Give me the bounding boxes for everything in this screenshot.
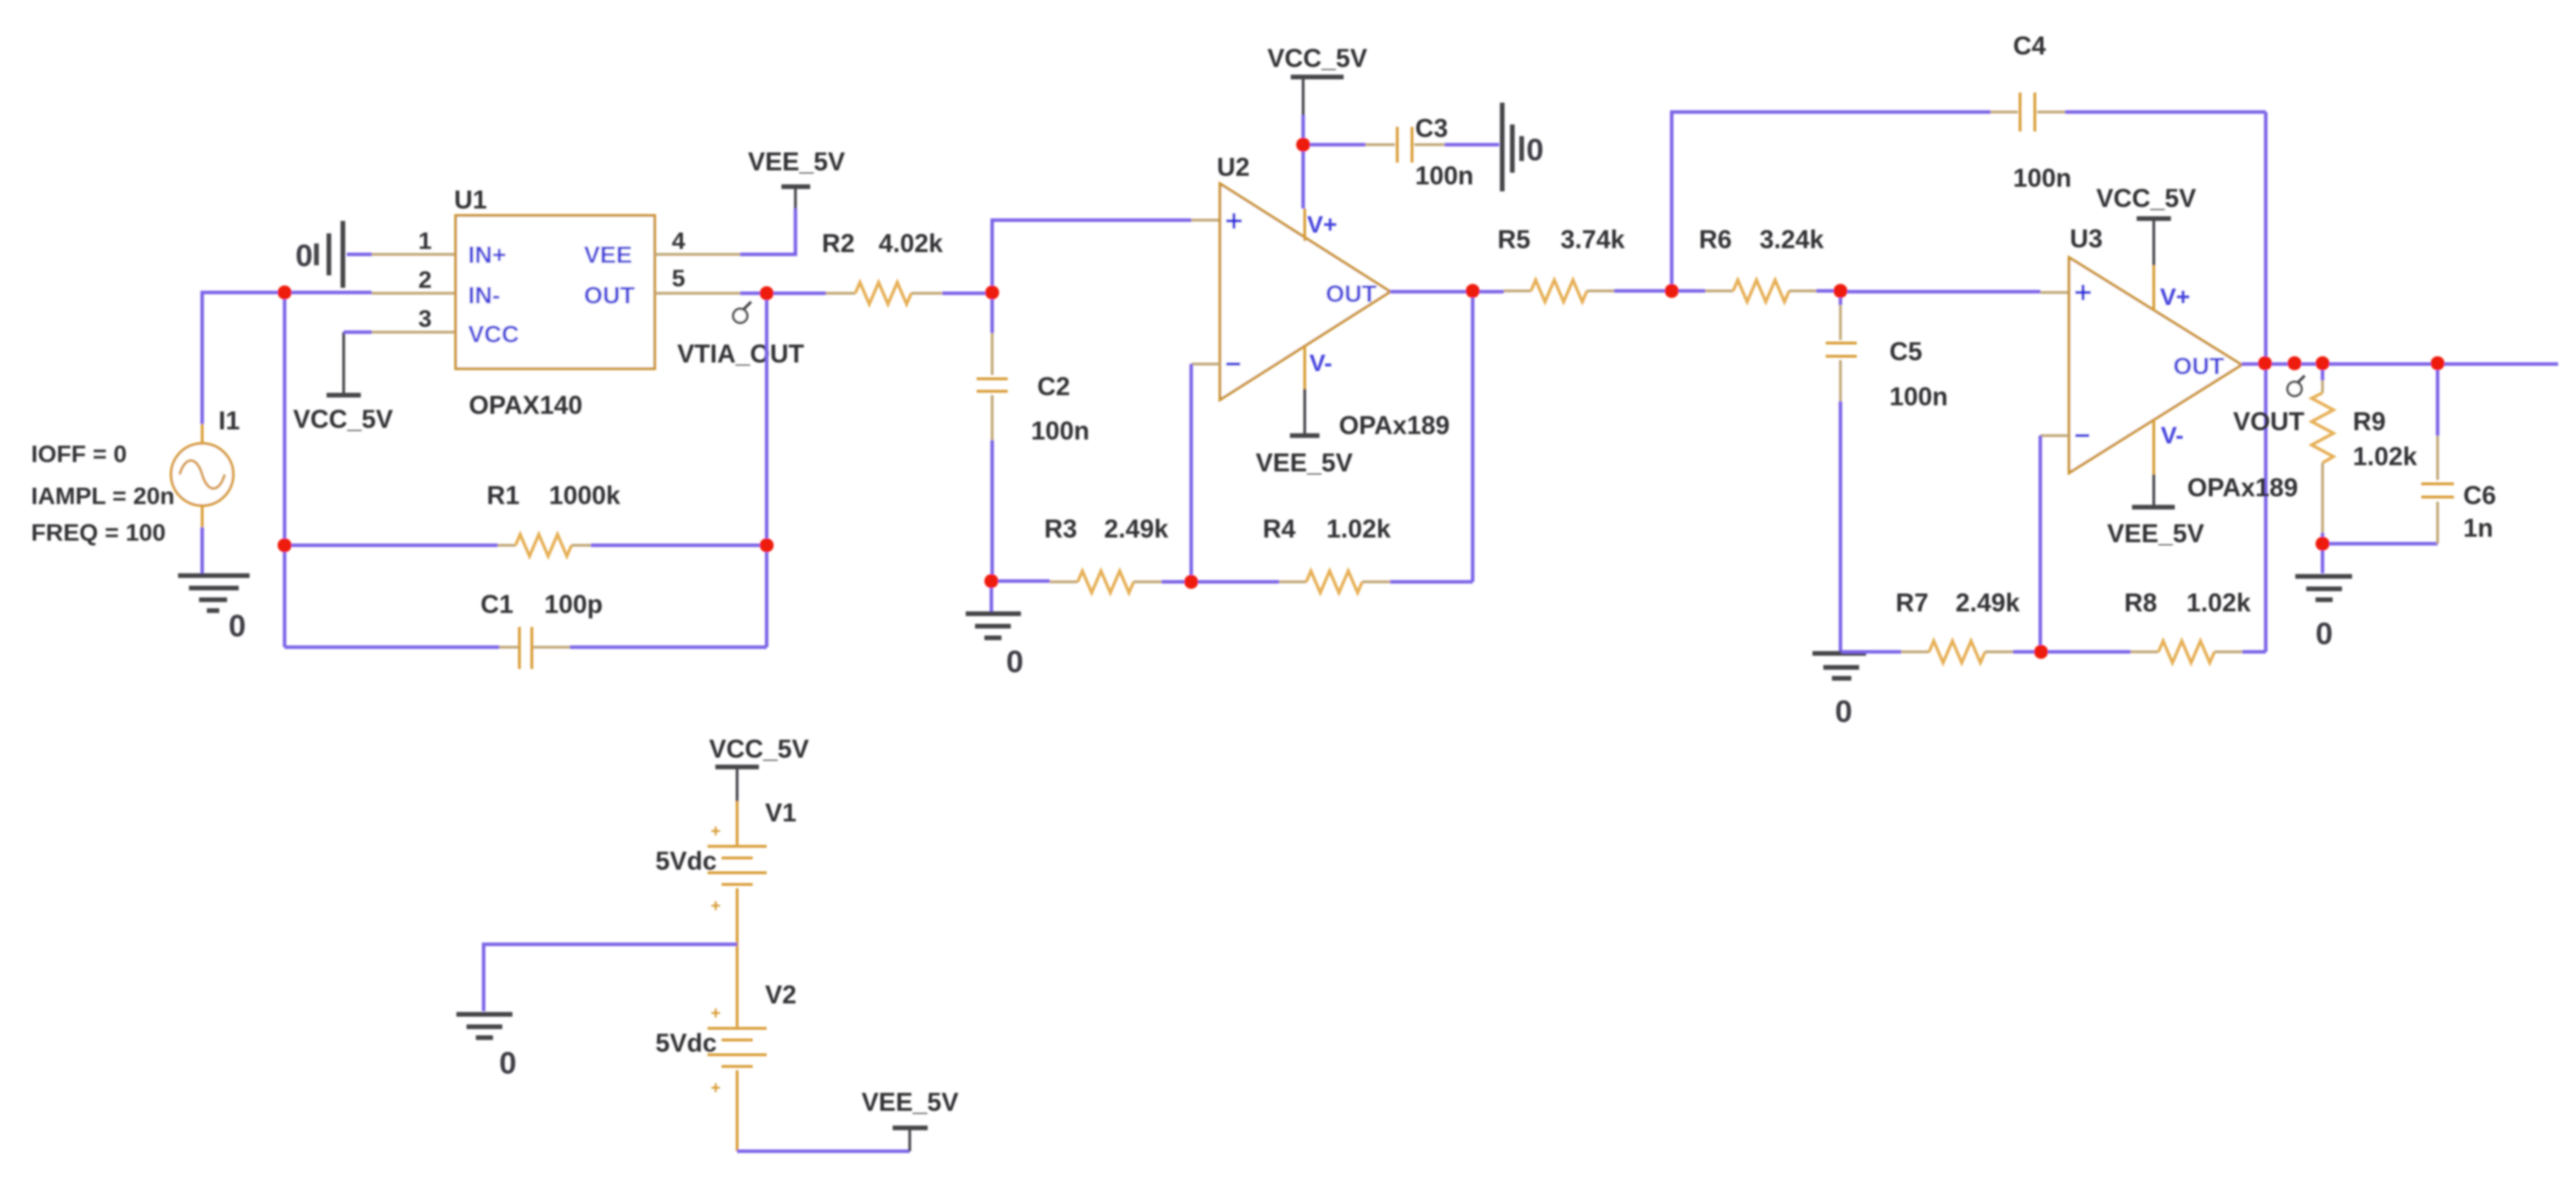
svg-text:+: + [711,1003,721,1023]
svg-text:5Vdc: 5Vdc [655,846,717,875]
node C4/U3 OUT junction [2258,356,2272,370]
node U2 OUT junction [1466,284,1480,298]
wire U2 minus stub [1191,362,1220,366]
battery V2 [655,980,796,1098]
svg-text:VEE: VEE [584,241,632,268]
node R3/U2 minus junction [1184,575,1198,589]
wire mid supply to ground [484,944,737,1011]
svg-text:U3: U3 [2070,224,2102,253]
resistor R8 [2041,588,2266,663]
svg-text:C1: C1 [481,590,513,618]
svg-text:VCC_5V: VCC_5V [293,404,393,433]
resistor R4 [1191,514,1473,593]
svg-text:V-: V- [2161,422,2183,449]
VEE_5V symbol top left [748,147,845,208]
resistor R2 [822,229,992,304]
svg-text:IAMPL = 20n: IAMPL = 20n [31,482,175,509]
svg-text:+: + [711,896,721,916]
node VCC/C3 junction [1296,138,1310,152]
probe VTIA_OUT [677,302,804,368]
op-amp U1 box [454,185,655,419]
svg-text:3.24k: 3.24k [1760,225,1824,254]
svg-text:0: 0 [1835,695,1852,729]
svg-text:1: 1 [418,227,432,254]
ground 0 under I1 [178,576,250,643]
svg-text:R5: R5 [1498,225,1530,254]
svg-text:VCC: VCC [468,320,519,348]
wire U2 minus vertical [1190,364,1194,582]
svg-text:OPAX140: OPAX140 [469,390,582,419]
svg-text:0: 0 [1006,645,1023,679]
U3 V- pin stub [2152,418,2155,474]
svg-text:5: 5 [672,264,685,292]
wire V1 to V2 [736,888,739,1027]
svg-text:1.02k: 1.02k [2353,442,2417,471]
wire U3 output row [2242,362,2558,366]
ground 0 below R9 [2295,544,2352,651]
svg-text:OUT: OUT [584,282,635,309]
node R2/C2 junction [985,285,999,299]
svg-text:R6: R6 [1699,225,1732,254]
svg-text:OPAx189: OPAx189 [1339,411,1449,439]
svg-text:VCC_5V: VCC_5V [709,734,809,763]
node input junction [278,285,292,299]
node R6/C5 junction [1833,284,1847,298]
VEE_5V symbol supply [862,1087,959,1151]
capacitor C6 [2421,364,2496,544]
svg-text:FREQ = 100: FREQ = 100 [31,519,166,546]
wire U2 plus stub [1191,219,1220,222]
resistor R9 [2312,364,2417,544]
resistor R3 [991,514,1191,593]
ground 0 supply [456,1014,516,1080]
svg-text:V2: V2 [765,980,796,1009]
node R9 bottom junction [2316,537,2330,551]
node R7/U3 minus junction [2034,645,2048,659]
svg-text:U1: U1 [454,185,487,214]
svg-text:V+: V+ [2160,283,2190,310]
ground 0 below C2/R3 [966,581,1023,679]
wire R9 bottom to C6 bottom [2323,542,2438,546]
svg-text:3: 3 [418,305,432,332]
wire U3 plus stub [2040,291,2069,294]
wire R4 to U2 output node [1471,291,1475,582]
VCC_5V symbol above U2 [1267,44,1367,115]
wire pin5 OUT lead [655,292,740,295]
svg-text:4.02k: 4.02k [879,229,943,257]
U3 V+ pin stub [2152,265,2155,311]
wire pin4 lead [655,253,740,256]
svg-text:2: 2 [418,266,432,293]
resistor R7 [1841,588,2041,663]
wire V2 bottom [736,1070,739,1151]
svg-text:100p: 100p [544,590,603,618]
wire U3 minus stub [2040,434,2069,437]
svg-text:C4: C4 [2013,31,2046,60]
wire pin1 lead [372,253,456,256]
VCC_5V symbol supply [709,734,809,801]
svg-text:100n: 100n [2013,163,2071,192]
svg-text:V-: V- [1309,349,1332,376]
svg-text:VCC_5V: VCC_5V [1267,44,1367,72]
svg-text:1.02k: 1.02k [1326,514,1391,543]
svg-text:VEE_5V: VEE_5V [748,147,845,176]
svg-text:C2: C2 [1037,372,1070,401]
wire VCC to U2 V+ [1302,115,1305,208]
node VOUT junction [2288,356,2302,370]
svg-text:1.02k: 1.02k [2186,588,2251,617]
svg-text:VCC_5V: VCC_5V [2096,184,2196,212]
node R1 right junction [760,538,774,552]
current source I1 [171,406,240,527]
op-amp U3 [2069,224,2298,502]
svg-text:V1: V1 [765,798,796,827]
svg-text:VEE_5V: VEE_5V [862,1087,959,1116]
wire R5 node riser to C4 [1672,112,1991,291]
svg-text:IN+: IN+ [468,241,506,268]
svg-text:I1: I1 [218,406,240,435]
svg-text:VEE_5V: VEE_5V [1256,448,1353,477]
svg-text:OPAx189: OPAx189 [2187,473,2298,502]
op-amp U2 [1217,152,1449,439]
wire pin3 [344,331,372,334]
capacitor C1 [285,590,767,669]
svg-text:+: + [711,1078,721,1098]
wire C4 right vertical [2264,112,2268,652]
resistor R6 [1672,225,1840,302]
svg-text:VEE_5V: VEE_5V [2107,519,2204,548]
svg-text:0: 0 [499,1046,516,1080]
svg-text:VOUT: VOUT [2233,407,2305,436]
VEE_5V symbol below U3 [2107,474,2204,548]
wire V2 to VEE_5V [737,1150,910,1154]
ground 0 at U1 pin 1 (sideways) [295,221,372,288]
svg-text:U2: U2 [1217,152,1250,181]
VCC_5V symbol at U1 pin 3 [293,332,393,433]
U2 V+ pin stub [1303,208,1306,241]
ground 0 at C3 (sideways) [1502,103,1543,191]
svg-text:R8: R8 [2124,588,2157,617]
svg-text:R4: R4 [1263,514,1296,543]
battery V1 [655,798,796,916]
svg-text:100n: 100n [1889,382,1948,411]
capacitor C2 [977,292,1089,581]
svg-text:2.49k: 2.49k [1956,588,2020,617]
wire R6 node to U3 plus input [1840,290,2040,294]
capacitor C4 [1991,31,2266,192]
svg-text:+: + [711,821,721,841]
wire OUT to R2 [740,292,826,296]
svg-text:100n: 100n [1031,416,1089,445]
svg-text:R9: R9 [2353,407,2386,436]
svg-text:0: 0 [1526,133,1543,167]
svg-text:R3: R3 [1044,514,1077,543]
svg-text:C5: C5 [1889,337,1922,366]
wire U1 output vertical to feedback [765,293,769,647]
node R5/C4 junction [1665,284,1679,298]
svg-text:100n: 100n [1415,161,1473,190]
svg-text:R1: R1 [487,481,519,509]
wire left vertical feedback [283,292,287,647]
svg-text:VTIA_OUT: VTIA_OUT [677,339,804,368]
svg-text:4: 4 [672,227,686,254]
wire I1 to input node [202,292,372,424]
svg-text:3.74k: 3.74k [1561,225,1625,254]
svg-text:5Vdc: 5Vdc [655,1028,717,1057]
capacitor C5 [1826,291,1948,652]
svg-text:OUT: OUT [1326,280,1377,307]
svg-text:IN-: IN- [468,282,500,309]
probe VOUT [2233,376,2305,436]
svg-text:C6: C6 [2463,481,2496,509]
wire pin4 to VEE_5V [740,208,795,254]
VEE_5V symbol below U2 [1256,389,1353,477]
svg-text:1000k: 1000k [549,481,620,509]
node R9 top junction [2316,356,2330,370]
svg-text:0: 0 [295,239,313,273]
svg-text:1n: 1n [2463,513,2494,542]
wire pin2 lead [372,292,456,295]
svg-text:0: 0 [229,609,246,643]
svg-text:OUT: OUT [2173,352,2225,380]
wire R2 node to U2 plus input [992,220,1191,293]
svg-text:0: 0 [2316,617,2333,651]
svg-text:R7: R7 [1896,588,1928,617]
node C2/R3 junction [984,574,998,588]
svg-text:2.49k: 2.49k [1104,514,1169,543]
node C6 top junction [2431,356,2445,370]
resistor R1 [285,481,767,556]
svg-text:R2: R2 [822,229,855,257]
wire U3 minus vertical [2039,436,2043,652]
node R1 left junction [278,538,292,552]
svg-text:C3: C3 [1415,114,1448,142]
wire I1 to ground [201,527,204,573]
wire U2 output row [1390,290,1504,294]
capacitor C3 [1303,114,1499,190]
resistor R5 [1498,225,1672,302]
ground 0 below C5 [1812,653,1866,729]
node U1 OUT junction [760,286,774,300]
VCC_5V symbol above U3 [2096,184,2196,265]
svg-text:IOFF = 0: IOFF = 0 [31,440,127,467]
U2 V- pin stub [1303,345,1306,389]
svg-text:V+: V+ [1307,211,1337,238]
